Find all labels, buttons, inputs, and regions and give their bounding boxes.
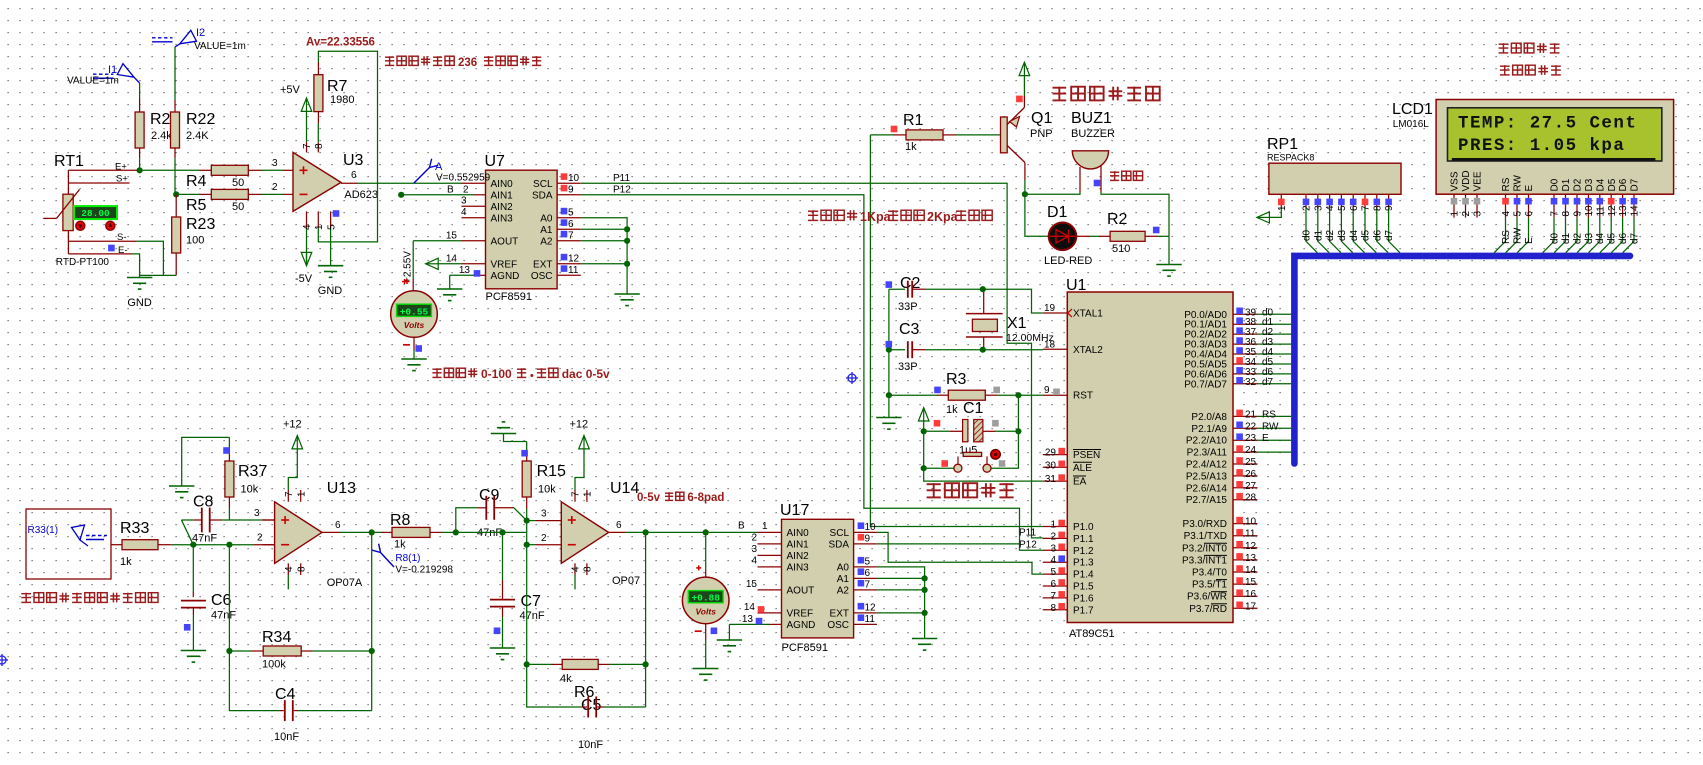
svg-text:17: 17 [1245,601,1257,612]
svg-text:14: 14 [1245,565,1257,576]
svg-text:P12: P12 [1019,540,1037,551]
pin 7 +5V [306,142,308,152]
IC U17 PCF8591 [782,519,854,638]
svg-text:12: 12 [1245,541,1257,552]
ground R15 inverted [491,433,516,435]
svg-text:AIN2: AIN2 [787,551,810,562]
svg-text:4k: 4k [560,673,572,685]
svg-text:47nF: 47nF [192,533,217,545]
svg-text:28.00: 28.00 [81,208,110,219]
wire U7 AIN1 net B [398,192,404,198]
svg-text:6: 6 [1524,211,1535,217]
svg-text:S-: S- [117,232,127,243]
ground alarm [1156,264,1181,266]
svg-text:P2.4/A12: P2.4/A12 [1186,460,1228,471]
ground AGND U7 [437,288,462,290]
svg-text:16: 16 [1245,589,1257,600]
wire R7 feedback loop [318,51,377,242]
wire RST [1018,394,1042,396]
svg-text:TEMP: 27.5 Cent: TEMP: 27.5 Cent [1458,114,1637,134]
svg-text:9: 9 [1384,205,1395,211]
svg-text:d5: d5 [1361,229,1372,241]
bus data blue [1294,256,1630,464]
svg-text:d7: d7 [1262,377,1274,388]
wire VCC to EA [924,421,1043,481]
svg-text:XTAL2: XTAL2 [1073,345,1103,356]
svg-text:+5V: +5V [280,84,301,96]
svg-text:-5V: -5V [295,273,313,285]
svg-text:18: 18 [1044,339,1056,350]
svg-text:U13: U13 [327,480,356,497]
svg-text:C6: C6 [211,592,232,609]
ground GND1 [127,277,152,279]
svg-text:11: 11 [865,614,876,625]
svg-text:1k: 1k [394,539,406,551]
svg-text:2: 2 [257,533,263,544]
power -5V [301,252,312,265]
wire Q1 emitter to power [1023,96,1025,108]
svg-text:P1.1: P1.1 [1073,534,1094,545]
svg-text:22: 22 [1245,421,1257,432]
op-amp U3 AD623 [293,152,341,211]
ground C7 [490,647,515,649]
svg-text:4: 4 [1501,211,1512,217]
svg-text:15: 15 [746,579,758,590]
svg-text:VALUE=1m: VALUE=1m [67,76,119,87]
svg-text:RT1: RT1 [54,153,84,170]
wire U17 AIN0 net B [758,531,782,533]
svg-text:d6: d6 [1372,229,1383,241]
svg-text:100: 100 [186,235,204,247]
svg-text:9: 9 [1044,385,1050,396]
svg-text:RTD-PT100: RTD-PT100 [56,257,110,268]
svg-text:4: 4 [1050,555,1056,566]
svg-text:R34: R34 [262,629,291,646]
svg-text:E+: E+ [115,162,127,173]
svg-text:AIN1: AIN1 [787,539,810,550]
pins RP1 2-9 to bus [1305,194,1307,207]
svg-text:50: 50 [232,177,244,189]
svg-text:RS: RS [1262,409,1276,420]
ground VM1 [401,358,426,360]
wire U7 A2 [557,240,581,242]
svg-text:GND: GND [127,297,152,309]
svg-text:D1: D1 [1047,204,1068,221]
svg-text:d0: d0 [1302,229,1313,241]
svg-text:510: 510 [1112,243,1130,255]
pin U14 1 [586,490,588,502]
pin U13 1 [300,490,302,502]
text display temp cn [1499,43,1509,45]
svg-text:3: 3 [1050,543,1056,554]
svg-text:7: 7 [1550,211,1561,217]
wire inverting node down [229,545,280,711]
pin U7 OSC [557,274,581,276]
svg-text:D4: D4 [1595,178,1606,191]
ground C6 [181,650,206,652]
svg-text:P2.6/A14: P2.6/A14 [1186,483,1228,494]
svg-text:1: 1 [583,491,594,497]
power +5V [301,98,312,111]
svg-text:ALE: ALE [1073,463,1092,474]
svg-text:AIN2: AIN2 [491,202,514,213]
op-amp U13 OP07A [275,502,322,564]
transistor Q1 PNP [1001,117,1008,153]
svg-text:C5: C5 [581,697,602,714]
svg-text:4: 4 [751,556,757,567]
svg-text:U1: U1 [1066,277,1087,294]
svg-text:SCL: SCL [533,179,553,190]
svg-text:P2.3/A11: P2.3/A11 [1187,448,1228,459]
svg-text:P2.1/A9: P2.1/A9 [1191,424,1227,435]
text buzzer cn [1110,171,1119,173]
svg-text:VSS: VSS [1450,171,1461,191]
svg-text:R2: R2 [1107,211,1128,228]
svg-text:P3.6/WR: P3.6/WR [1187,592,1227,603]
svg-text:d1: d1 [1313,229,1324,241]
svg-text:6: 6 [616,520,622,531]
svg-text:2: 2 [751,533,757,544]
svg-text:11: 11 [1245,529,1256,540]
svg-text:7: 7 [1361,205,1372,211]
svg-text:GND: GND [318,285,343,297]
IC U7 PCF8591 [486,170,558,289]
current source I2 [174,47,176,100]
svg-text:13: 13 [742,614,754,625]
feedback R6 4k [645,532,647,707]
svg-text:d7: d7 [1629,232,1640,244]
svg-text:2: 2 [1302,205,1313,211]
svg-text:d3: d3 [1337,229,1348,241]
pins U17 AIN1-3 AOUT [758,543,782,545]
svg-text:6: 6 [865,568,871,579]
node pressure input junction [190,542,196,548]
wire U17 EXT [854,612,877,614]
svg-text:6: 6 [1349,205,1360,211]
svg-text:2: 2 [272,182,278,193]
svg-text:1k: 1k [946,404,958,416]
wire U7 VREF terminal [462,263,486,265]
node E+ junction [137,167,143,173]
pins U1 P3 port [1233,523,1258,525]
pin U1 XTAL2 [1043,348,1068,350]
svg-text:Volts: Volts [695,606,716,616]
svg-text:3: 3 [254,508,260,519]
svg-text:1Kpa: 1Kpa [860,210,892,224]
wire C2 left vertical [888,289,890,395]
svg-text:9: 9 [865,534,871,545]
svg-text:2: 2 [463,185,469,196]
svg-text:5: 5 [1337,205,1348,211]
svg-text:47nF: 47nF [520,610,545,622]
feedback R34 100k [371,532,373,710]
svg-text:1k: 1k [120,556,132,568]
svg-text:VREF: VREF [491,259,518,270]
svg-text:AIN0: AIN0 [787,528,810,539]
wire buzzer right to gnd [1101,192,1169,236]
svg-text:8: 8 [1372,205,1383,211]
marker blue crosshair [846,372,858,384]
pins U14 4 8 [574,563,576,575]
svg-text:VDD: VDD [1461,170,1472,191]
svg-text:d7: d7 [1384,229,1395,241]
svg-text:U3: U3 [343,152,364,169]
svg-text:2: 2 [1050,531,1056,542]
svg-text:9: 9 [568,185,574,196]
svg-text:LM016L: LM016L [1393,119,1430,130]
pin U1 PSEN [1043,454,1068,456]
node XTAL2 net [980,347,986,353]
svg-text:+2.55V: +2.55V [403,251,414,283]
svg-text:P1.5: P1.5 [1073,582,1094,593]
svg-text:P1.6: P1.6 [1073,593,1094,604]
svg-text:25: 25 [1245,457,1257,468]
pin U1 RST [1043,394,1068,396]
svg-text:OSC: OSC [827,620,849,631]
svg-text:PSEN: PSEN [1073,450,1100,461]
text alarm title [1053,87,1067,89]
svg-text:Volts: Volts [404,320,425,330]
svg-text:P1.7: P1.7 [1073,605,1094,616]
IC U1 AT89C51 [1067,292,1233,623]
svg-text:P3.7/RD: P3.7/RD [1189,604,1227,615]
svg-text:PCF8591: PCF8591 [782,642,828,654]
svg-text:1: 1 [1450,211,1461,217]
svg-text:U7: U7 [485,153,506,170]
wire C7 branch [456,531,527,533]
svg-text:1k: 1k [905,141,917,153]
svg-text:EXT: EXT [830,608,849,619]
svg-text:7: 7 [302,143,313,149]
text annotation output voltage [385,56,394,58]
pin U1 ALE [1043,466,1068,468]
svg-text:33P: 33P [898,361,918,373]
svg-text:11: 11 [568,265,579,276]
svg-text:10: 10 [865,522,877,533]
svg-text:A: A [435,161,443,173]
wire U7 SDA to P1.2 net P12 [557,194,581,196]
svg-text:E: E [1524,237,1535,244]
svg-text:EXT: EXT [533,259,552,270]
svg-text:A2: A2 [837,585,850,596]
svg-text:AT89C51: AT89C51 [1069,628,1115,640]
power arrow top [1019,62,1030,75]
pins U1 P2 port [1233,415,1258,417]
svg-text:R37: R37 [238,463,267,480]
svg-text:I1: I1 [108,64,117,76]
svg-text:R2: R2 [150,111,171,128]
wire R37 to ground [182,437,230,485]
wire C8 diagonal [181,520,193,545]
svg-text:10: 10 [1245,517,1257,528]
svg-text:2.4k: 2.4k [151,130,172,142]
svg-text:D5: D5 [1607,178,1618,191]
pin U7 AIN3 [462,217,486,219]
svg-text:P3.3/INT1: P3.3/INT1 [1182,555,1227,566]
svg-text:28: 28 [1245,493,1257,504]
svg-text:OP07A: OP07A [327,577,363,589]
wire U17 A1 [854,577,877,579]
pin 5 ground [330,211,332,228]
svg-text:15: 15 [1245,577,1257,588]
svg-text:5: 5 [568,208,574,219]
svg-text:VREF: VREF [787,608,814,619]
svg-text:7: 7 [1050,591,1056,602]
svg-text:RP1: RP1 [1267,136,1298,153]
wire D1 to R2 [1076,235,1090,237]
svg-text:PRES: 1.05 kpa: PRES: 1.05 kpa [1458,136,1625,156]
svg-text:P11: P11 [613,173,630,184]
svg-text:6: 6 [1050,579,1056,590]
wire R2 gnd [1168,236,1170,264]
svg-text:27: 27 [1245,481,1257,492]
text pressure alarm annotation [808,210,818,212]
svg-text:1: 1 [1277,205,1288,211]
wire S+ [68,182,129,184]
svg-text:P1.0: P1.0 [1073,522,1094,533]
svg-text:d3: d3 [1584,232,1595,244]
svg-text:R15: R15 [537,463,566,480]
pins U1 P0 port [1233,313,1258,315]
svg-text:PNP: PNP [1030,128,1053,140]
svg-text:P1.2: P1.2 [1073,546,1094,557]
svg-text:LCD1: LCD1 [1392,101,1433,118]
svg-text:RS: RS [1501,230,1512,244]
svg-text:I2: I2 [196,27,205,39]
pin 4 -5V [306,211,308,228]
svg-text:24: 24 [1245,445,1257,456]
svg-text:10k: 10k [538,484,556,496]
svg-text:R3: R3 [946,371,967,388]
svg-text:7: 7 [571,491,582,497]
wire U17 AGND ground [770,623,782,625]
wire R1 to P1.0 [870,135,1042,527]
svg-text:P2.5/A13: P2.5/A13 [1186,471,1228,482]
svg-text:10k: 10k [241,484,259,496]
svg-text:P2.2/A10: P2.2/A10 [1186,436,1228,447]
svg-text:12: 12 [1607,205,1618,217]
svg-text:P1.3: P1.3 [1073,558,1094,569]
svg-text:R22: R22 [186,111,215,128]
svg-text:7: 7 [568,231,574,242]
svg-text:14: 14 [446,253,458,264]
ground U17 A-pins [912,638,937,640]
svg-text:14: 14 [744,602,756,613]
svg-text:U14: U14 [610,480,639,497]
voltmeter VM1 +0.55 [391,291,438,338]
svg-text:d0: d0 [1549,232,1560,244]
svg-text:30: 30 [1045,460,1057,471]
wire XTAL2 [983,349,1043,351]
node U13 output junction [369,529,375,535]
svg-text:50: 50 [232,201,244,213]
svg-text:d6: d6 [1618,232,1629,244]
svg-text:d1: d1 [1561,232,1572,244]
svg-text:RW: RW [1262,421,1279,432]
probe A [414,168,430,184]
wire U3 output pin 6 [341,182,358,184]
svg-text:U17: U17 [780,502,809,519]
text temperature annotation [432,368,441,370]
svg-text:RW: RW [1513,174,1524,191]
svg-text:12: 12 [865,603,877,614]
svg-text:13: 13 [1245,553,1257,564]
svg-text:PCF8591: PCF8591 [486,291,532,303]
svg-text:14: 14 [1630,205,1641,217]
svg-text:8: 8 [583,566,594,572]
svg-text:D2: D2 [1573,178,1584,191]
ground U17 AGND [717,639,742,641]
svg-text:29: 29 [1045,448,1057,459]
svg-text:2.4K: 2.4K [186,130,209,142]
svg-text:EA: EA [1073,477,1087,488]
svg-text:P12: P12 [613,185,631,196]
svg-text:Q1: Q1 [1031,110,1052,127]
respack RP1 RESPACK-8 [1269,163,1401,194]
svg-text:A1: A1 [540,225,553,236]
wire U17 A2 [854,589,877,591]
svg-text:E: E [1262,433,1269,444]
svg-text:LED-RED: LED-RED [1044,255,1092,267]
svg-text:8: 8 [1050,603,1056,614]
svg-text:D3: D3 [1584,178,1595,191]
svg-text:AOUT: AOUT [491,236,519,247]
svg-text:8: 8 [296,566,307,572]
wire S- [67,231,69,254]
svg-text:R7: R7 [327,78,348,95]
svg-text:23: 23 [1245,433,1257,444]
svg-text:P2.7/A15: P2.7/A15 [1186,495,1228,506]
svg-text:47nF: 47nF [211,610,236,622]
svg-text:5: 5 [1050,567,1056,578]
svg-text:BUZ1: BUZ1 [1071,110,1112,127]
svg-text:E: E [1524,185,1535,192]
svg-text:4: 4 [302,224,313,230]
svg-text:P3.5/T1: P3.5/T1 [1192,580,1227,591]
current source I1 [139,83,141,97]
svg-text:C3: C3 [899,321,920,338]
text reset cn [927,483,941,485]
svg-text:7: 7 [865,580,871,591]
svg-text:10nF: 10nF [274,731,299,743]
svg-text:AIN3: AIN3 [491,213,514,224]
wire U17 A0 [854,566,877,568]
svg-text:AD623: AD623 [344,189,378,201]
svg-text:4: 4 [571,566,582,572]
svg-text:5: 5 [1513,211,1524,217]
svg-text:SDA: SDA [532,190,553,201]
svg-text:dac 0-5v: dac 0-5v [562,367,610,381]
svg-text:R8: R8 [390,512,411,529]
svg-text:AIN3: AIN3 [787,562,810,573]
voltmeter VM2 +0.88 [705,532,707,569]
svg-text:1: 1 [314,224,325,230]
svg-text:32: 32 [1245,377,1257,388]
svg-text:D6: D6 [1618,178,1629,191]
svg-text:2Kpa: 2Kpa [927,210,959,224]
wire E+ [68,169,138,171]
svg-text:RS: RS [1501,177,1512,191]
svg-text:1: 1 [762,521,768,532]
pin U17 VREF [758,612,782,614]
sensor source glyph [72,525,85,540]
wire reset cap net [991,395,1019,468]
svg-text:S+: S+ [116,174,128,185]
svg-text:19: 19 [1044,303,1056,314]
svg-text:9: 9 [1573,211,1584,217]
svg-text:100k: 100k [262,659,286,671]
svg-text:4: 4 [284,566,295,572]
